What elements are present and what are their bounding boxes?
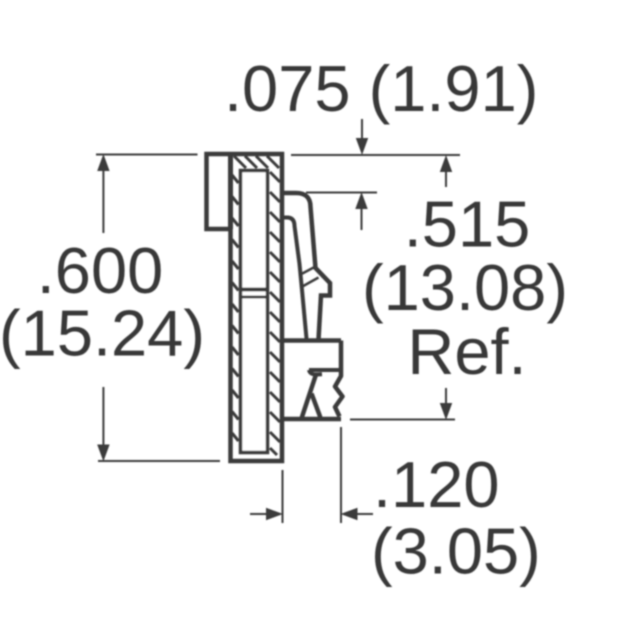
dim .515 bottom arrowhead (down)	[441, 404, 452, 419]
contact retention lines in cavity	[239, 288, 269, 292]
dim .075/.515 shared top extension line	[291, 154, 460, 156]
wire curl	[309, 370, 322, 375]
dim .515 bottom extension line	[350, 419, 455, 421]
dim .120 right extension line	[340, 427, 342, 523]
dim .515 bottom stem	[445, 388, 447, 404]
svg-text:Ref.: Ref.	[407, 315, 526, 388]
dim .600 bottom arrowhead	[98, 445, 109, 460]
dim .600 stem upper segment	[102, 170, 104, 233]
dim .075 lower arrowhead (up)	[356, 194, 367, 209]
crimp inner shelf	[309, 368, 341, 372]
hatch left band	[232, 175, 239, 441]
dim .515 top stem	[445, 171, 447, 187]
dim .600 bottom extension line	[98, 460, 220, 462]
hatch right band	[270, 172, 280, 455]
crimp block right edge with break zigzag	[335, 341, 343, 417]
dim .120 left extension line	[282, 470, 284, 523]
svg-text:.120: .120	[373, 448, 500, 521]
dim .075 upper arrowhead (down)	[357, 139, 368, 154]
svg-text:.515: .515	[404, 188, 531, 261]
svg-text:(15.24): (15.24)	[0, 297, 205, 370]
crimp block top edge	[282, 338, 341, 343]
dim .515 top arrowhead (up)	[441, 157, 452, 172]
dim .600 stem lower segment	[102, 387, 104, 445]
contact arm outer edge	[282, 193, 330, 340]
hatch top band	[234, 156, 279, 168]
svg-text:(13.08): (13.08)	[362, 251, 568, 324]
dim .120 right arrowhead (left)	[342, 509, 357, 520]
dim .075 upper arrow stem	[361, 119, 363, 140]
wire V left leg	[302, 375, 316, 418]
dim .120 left arrow stem	[250, 513, 267, 515]
contact arm inner edge	[282, 218, 307, 339]
contact cavity	[241, 171, 268, 453]
housing body outline	[207, 154, 283, 461]
svg-text:(3.05): (3.05)	[371, 515, 541, 588]
wire V right leg	[312, 394, 321, 418]
dim .120 right arrow stem	[356, 513, 373, 515]
dim .120 left arrowhead (right)	[267, 509, 282, 520]
contact spring tick marks	[301, 267, 316, 275]
svg-text:.075 (1.91): .075 (1.91)	[224, 52, 538, 125]
housing left wall (tab inner wall)	[228, 154, 233, 229]
dim .075 lower arrow stem	[361, 208, 363, 230]
dim .075 bottom extension line	[306, 192, 377, 194]
crimp block bottom edge	[282, 417, 341, 422]
dim .600 top extension line	[96, 154, 198, 156]
dim .600 top arrowhead	[98, 156, 109, 171]
